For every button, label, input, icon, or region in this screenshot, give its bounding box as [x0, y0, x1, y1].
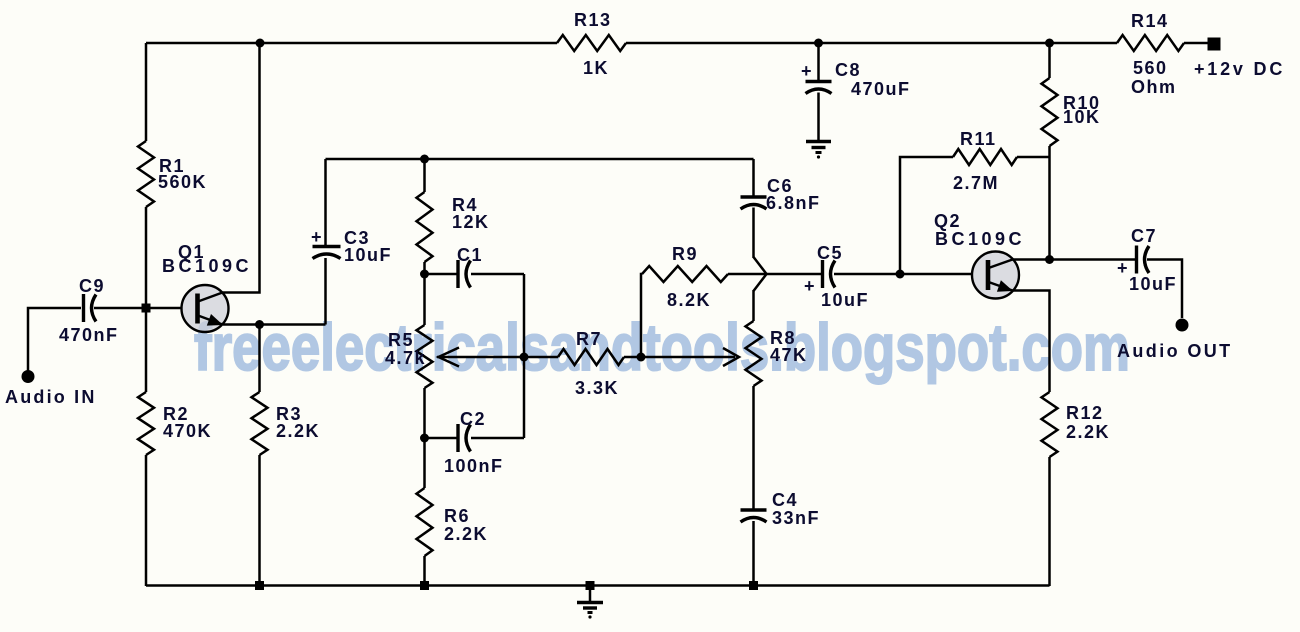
wire C1 row: [425, 273, 525, 276]
resistor R8 potentiometer: [746, 321, 762, 386]
capacitor C7 polarized: [1135, 246, 1138, 274]
node R4 / C1 / R5: [420, 270, 429, 279]
wire C6/R8/C4 column upper: [752, 159, 755, 196]
svg-text:2.2K: 2.2K: [1066, 422, 1110, 442]
svg-text:Audio OUT: Audio OUT: [1117, 341, 1233, 361]
wire R10 column x=1049.5: [1048, 43, 1051, 259]
wire Audio IN stub up to base wire: [28, 308, 81, 371]
wire C7 to Audio OUT: [1147, 260, 1182, 319]
svg-text:Ohm: Ohm: [1131, 77, 1177, 97]
resistor R7: [558, 349, 624, 365]
node top rail / R10: [1045, 39, 1054, 48]
node collector Q2 / R10: [1045, 255, 1054, 264]
resistor R5 potentiometer: [417, 325, 433, 388]
svg-text:+: +: [311, 227, 323, 247]
wire top supply rail middle segment: [626, 42, 1117, 45]
svg-text:560K: 560K: [158, 172, 207, 192]
wire C6 bottom to hop: [752, 208, 755, 259]
capacitor C8 polarized: [806, 80, 832, 83]
svg-text:C1: C1: [457, 245, 483, 265]
node top rail / C8: [814, 39, 823, 48]
capacitor C9: [82, 294, 85, 322]
capacitor C6: [741, 195, 767, 198]
svg-text:3.3K: 3.3K: [575, 378, 619, 398]
resistor R6: [417, 488, 433, 556]
wire Q2 emitter to R12 column: [1012, 291, 1050, 393]
wire top supply rail right segment: [1184, 42, 1209, 45]
wire Q2 collector horizontal to C7: [1012, 258, 1136, 261]
resistor R14: [1117, 35, 1184, 51]
wire R8 bottom to C4: [752, 386, 755, 509]
svg-text:+: +: [804, 276, 816, 296]
wire top supply rail left segment: [146, 42, 557, 45]
terminal +12v DC: [1208, 38, 1221, 51]
svg-text:10uF: 10uF: [344, 245, 392, 265]
svg-text:R5: R5: [388, 330, 414, 350]
svg-text:2.7M: 2.7M: [953, 173, 999, 193]
R8 wiper arrowhead pointing right: [723, 348, 739, 366]
wire R12 bottom to ground rail: [1048, 457, 1051, 586]
svg-text:C8: C8: [835, 60, 861, 80]
wire R9 output to C5: [728, 273, 821, 276]
node emitter Q1 / R3: [255, 320, 264, 329]
capacitor C4: [741, 508, 767, 511]
node feedback rail / R4: [420, 155, 429, 164]
wire C2 row: [425, 437, 525, 440]
svg-text:R6: R6: [444, 506, 470, 526]
wire bottom ground rail: [146, 584, 1050, 587]
svg-text:+: +: [1117, 258, 1129, 278]
ground symbol under C8: [806, 142, 831, 159]
terminal Audio IN: [22, 370, 35, 383]
svg-text:100nF: 100nF: [444, 456, 504, 476]
resistor R13: [557, 35, 626, 51]
svg-text:2.2K: 2.2K: [444, 524, 488, 544]
wire R11 left riser from Q2 base node: [900, 157, 953, 274]
svg-text:Q2: Q2: [934, 211, 961, 231]
wire R9 left vertical riser: [641, 274, 642, 357]
svg-text:R9: R9: [672, 244, 698, 264]
resistor R2: [138, 392, 154, 455]
svg-text:47K: 47K: [770, 345, 808, 365]
node wiper line / R9 riser: [637, 353, 646, 362]
resistor R4: [417, 192, 433, 262]
node bottom rail / ground stub: [586, 581, 595, 590]
capacitor C1: [456, 260, 459, 288]
resistor R10: [1042, 78, 1058, 146]
transistor Q2 BC109C: [934, 211, 1025, 299]
node bottom rail / C4: [749, 581, 758, 590]
svg-text:+12v DC: +12v DC: [1194, 59, 1285, 79]
svg-text:560: 560: [1133, 58, 1168, 78]
wire C3 vertical branch: [324, 159, 327, 325]
svg-text:BC109C: BC109C: [162, 256, 252, 276]
node wiper line / C1-C2 link: [520, 353, 529, 362]
svg-text:C2: C2: [460, 409, 486, 429]
resistor R9: [642, 266, 728, 282]
R5 wiper arrowhead pointing left: [439, 348, 460, 367]
svg-text:6.8nF: 6.8nF: [766, 193, 821, 213]
wire feedback rail y=159: [326, 158, 754, 161]
svg-text:+: +: [801, 61, 813, 81]
resistor R11: [953, 149, 1017, 165]
resistor R12: [1042, 392, 1058, 457]
wire wiper line R5 to R7 to R8: [437, 356, 735, 359]
resistor R1: [138, 141, 154, 207]
wire C9 to Q1 base: [94, 307, 182, 310]
svg-text:470uF: 470uF: [851, 79, 911, 99]
svg-text:8.2K: 8.2K: [667, 290, 711, 310]
svg-text:R7: R7: [576, 329, 602, 349]
wire C1-C2 right vertical link: [523, 274, 526, 438]
node R5 / C2 / R6: [420, 434, 429, 443]
svg-text:R12: R12: [1066, 403, 1104, 423]
wire R11 right to R10 column: [1017, 156, 1050, 159]
svg-text:10uF: 10uF: [1129, 274, 1177, 294]
node top rail / collector Q1: [256, 39, 265, 48]
svg-text:470K: 470K: [163, 421, 212, 441]
transistor Q1 BC109C: [162, 242, 252, 332]
svg-text:BC109C: BC109C: [935, 229, 1025, 249]
svg-text:33nF: 33nF: [772, 508, 820, 528]
svg-text:4.7k: 4.7k: [385, 348, 426, 368]
wire R4/R5/R6 column x=424.5: [423, 159, 426, 586]
capacitor C3 polarized: [313, 245, 341, 248]
svg-text:10K: 10K: [1063, 107, 1101, 127]
svg-text:470nF: 470nF: [59, 325, 119, 345]
wire hop to R8 top: [752, 290, 755, 321]
node bottom rail / R3: [255, 581, 264, 590]
node C5 / R11 / base Q2: [896, 270, 905, 279]
svg-text:C9: C9: [79, 276, 105, 296]
wire Q1 collector branch x=259.5: [222, 43, 260, 293]
node bottom rail / R6: [420, 581, 429, 590]
node base Q1 / R1 R2: [142, 304, 151, 313]
terminal Audio OUT: [1176, 319, 1189, 332]
ground symbol on bottom rail: [577, 603, 603, 619]
resistor R3: [252, 392, 268, 455]
svg-text:C4: C4: [772, 490, 798, 510]
wire C5 to Q2 base: [834, 273, 972, 276]
wire ground stub on bottom rail: [589, 586, 592, 601]
svg-text:R14: R14: [1131, 11, 1169, 31]
wire crossover hop over R9-C5 wire: [754, 257, 767, 291]
svg-text:10uF: 10uF: [821, 290, 869, 310]
wire R3 branch: [258, 325, 261, 587]
svg-text:1K: 1K: [583, 58, 609, 78]
svg-text:R13: R13: [574, 10, 612, 30]
wire C4 bottom to ground rail: [752, 521, 755, 586]
svg-text:C7: C7: [1131, 226, 1157, 246]
svg-text:freeelectricalsandtools.blogsp: freeelectricalsandtools.blogspot.com: [194, 310, 1130, 384]
svg-text:Audio IN: Audio IN: [5, 387, 97, 407]
capacitor C5 polarized: [821, 260, 824, 288]
svg-text:C5: C5: [817, 243, 843, 263]
svg-text:2.2K: 2.2K: [276, 421, 320, 441]
capacitor C2: [456, 424, 459, 452]
wire C8 branch from top rail: [817, 43, 820, 140]
svg-text:R11: R11: [960, 129, 997, 149]
wire left vertical branch x=146 (R1/R2 column): [145, 43, 148, 586]
svg-text:12K: 12K: [452, 212, 490, 232]
wire Q1 emitter horizontal to C3 bottom: [223, 323, 326, 326]
